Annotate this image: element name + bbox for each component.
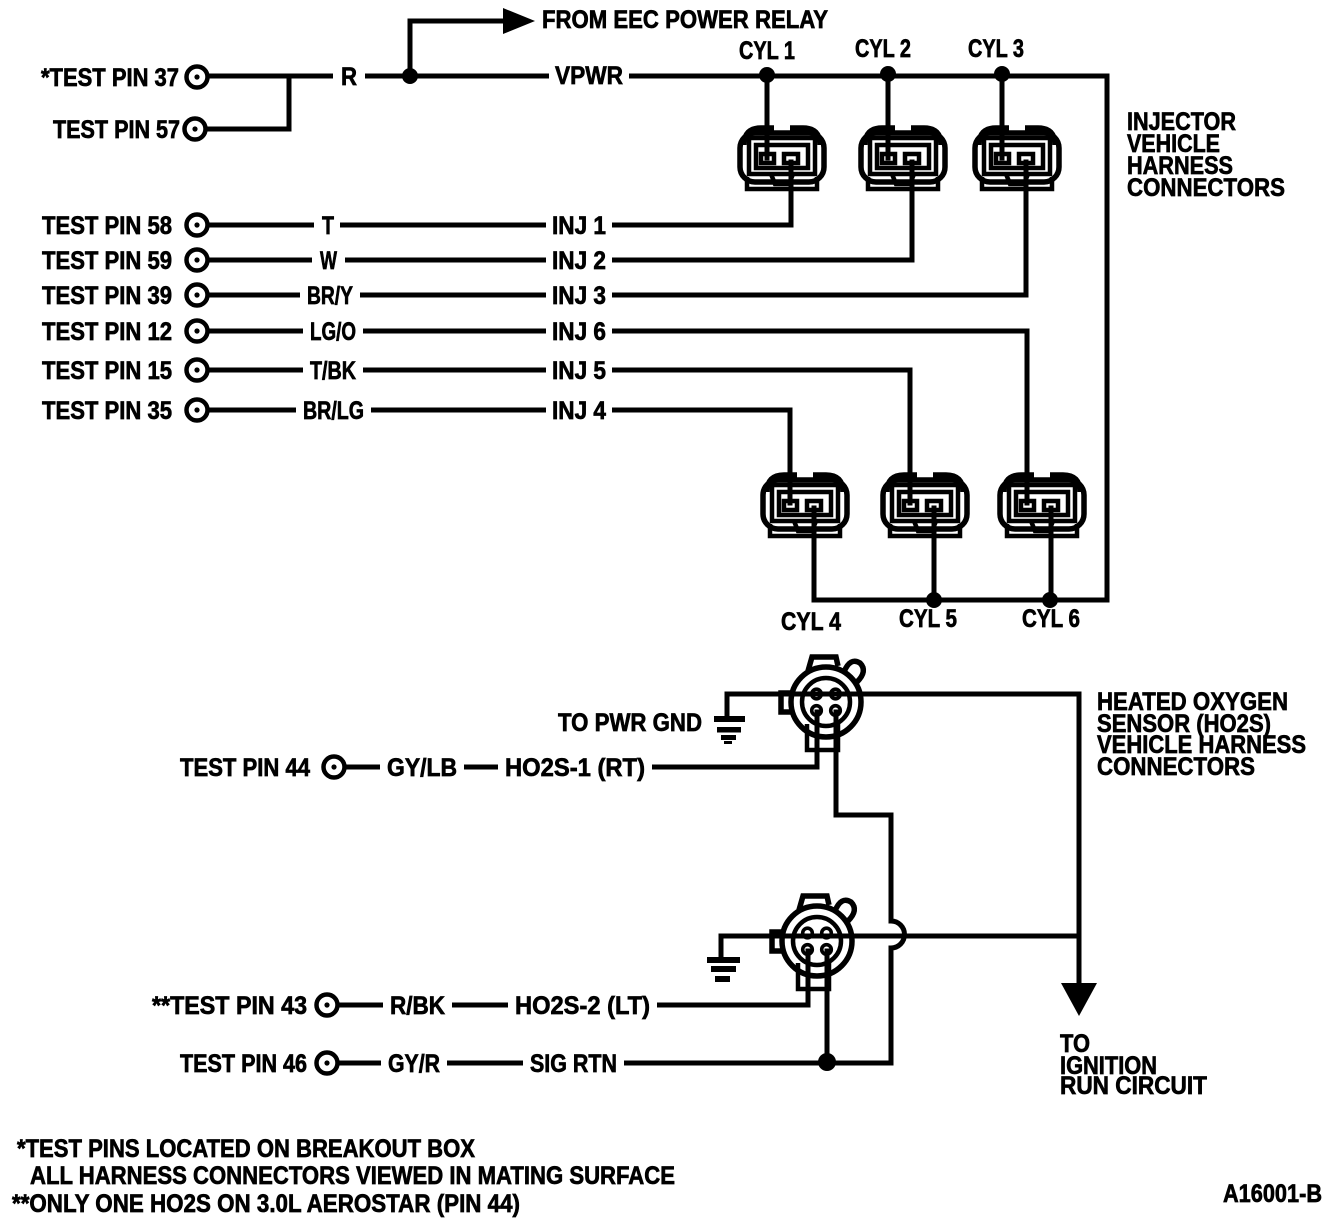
junction dot CYL2 [880, 66, 896, 82]
svg-text:CYL 5: CYL 5 [899, 605, 957, 633]
wire CYL3 drop to connector [1000, 75, 1005, 158]
svg-text:TEST PIN 35: TEST PIN 35 [42, 397, 172, 425]
svg-text:TEST PIN 12: TEST PIN 12 [42, 318, 172, 346]
svg-text:LG/O: LG/O [310, 318, 356, 346]
svg-text:TEST PIN 46: TEST PIN 46 [180, 1050, 307, 1078]
test pin 44 circle [324, 757, 345, 778]
wire INJ 2 row [208, 162, 912, 260]
test pin 37 circle [187, 67, 208, 88]
test pin 15 circle [187, 360, 208, 381]
svg-text:INJ 4: INJ 4 [552, 397, 606, 425]
wire PWR GND to sensor1 and down to arrow [727, 694, 1079, 983]
svg-text:INJ 5: INJ 5 [552, 357, 606, 385]
svg-text:*TEST PINS LOCATED ON BREAKOUT: *TEST PINS LOCATED ON BREAKOUT BOX [17, 1135, 475, 1163]
wire CYL5 pin riser [932, 508, 937, 600]
svg-text:R: R [341, 63, 357, 91]
label INJECTOR VEHICLE HARNESS CONNECTORS [1127, 108, 1285, 202]
test pin 46 circle [317, 1053, 338, 1074]
wire CYL1 drop to connector [765, 75, 770, 158]
svg-text:A16001-B: A16001-B [1223, 1180, 1322, 1208]
injector connector CYL2 [861, 128, 945, 189]
svg-text:INJ 2: INJ 2 [552, 247, 606, 275]
svg-text:INJ 1: INJ 1 [552, 212, 606, 240]
junction dot CYL1 [759, 67, 775, 83]
junction dot CYL5 bus [926, 592, 942, 608]
svg-text:INJ 6: INJ 6 [552, 318, 606, 346]
svg-text:BR/LG: BR/LG [303, 397, 364, 425]
svg-text:**TEST PIN 43: **TEST PIN 43 [152, 992, 307, 1020]
wire INJ 5 row [208, 370, 910, 503]
svg-text:*TEST PIN 37: *TEST PIN 37 [41, 64, 179, 92]
svg-text:R/BK: R/BK [390, 992, 445, 1020]
wire INJ 4 row [208, 410, 790, 503]
injector connector CYL5 [883, 475, 967, 536]
wire sensor1 to SIG RTN vertical with hop [836, 712, 905, 1063]
test pin 59 circle [187, 250, 208, 271]
label HEATED OXYGEN SENSOR (HO2S) VEHICLE HARNESS CONNECTORS [1097, 688, 1306, 781]
svg-text:TEST PIN 39: TEST PIN 39 [42, 282, 172, 310]
junction dot SIG RTN [818, 1053, 836, 1071]
svg-text:**ONLY ONE HO2S ON 3.0L AEROST: **ONLY ONE HO2S ON 3.0L AEROSTAR (PIN 44… [12, 1190, 520, 1218]
test pin 39 circle [187, 285, 208, 306]
svg-text:FROM EEC POWER RELAY: FROM EEC POWER RELAY [542, 6, 828, 34]
wire sensor2 pin to SIG RTN [825, 951, 830, 1063]
svg-text:HO2S-1 (RT): HO2S-1 (RT) [505, 754, 645, 782]
wire CYL456 bus bottom [814, 598, 1107, 603]
svg-text:GY/R: GY/R [388, 1050, 440, 1078]
test pin 57 circle [185, 119, 206, 140]
wire CYL6 pin riser [1049, 508, 1054, 600]
wire CYL2 drop to connector [886, 75, 891, 158]
injector connector CYL6 [1000, 475, 1084, 536]
svg-text:VPWR: VPWR [555, 62, 623, 90]
wire INJ 3 row [208, 162, 1026, 295]
wire branch to EEC arrow [410, 21, 503, 77]
svg-text:T: T [322, 212, 334, 240]
wire HO2S-2 row [338, 951, 808, 1005]
svg-text:BR/Y: BR/Y [307, 282, 353, 310]
svg-text:CYL 3: CYL 3 [968, 35, 1024, 63]
wire INJ 6 row [208, 331, 1027, 503]
svg-text:CYL 1: CYL 1 [739, 37, 795, 65]
svg-text:TO PWR GND: TO PWR GND [558, 709, 702, 737]
svg-text:ALL HARNESS CONNECTORS VIEWED: ALL HARNESS CONNECTORS VIEWED IN MATING … [30, 1162, 675, 1190]
svg-text:TEST PIN 57: TEST PIN 57 [53, 116, 180, 144]
wire CYL4 pin riser [812, 508, 817, 600]
svg-text:INJ 3: INJ 3 [552, 282, 606, 310]
injector connector CYL4 [763, 475, 847, 536]
HO2S connector 2 [772, 896, 854, 989]
wire right vertical VPWR to CYL bus [1105, 76, 1110, 600]
svg-text:CONNECTORS: CONNECTORS [1097, 753, 1255, 781]
ground symbol 1 PWR GND [714, 716, 745, 744]
svg-text:T/BK: T/BK [310, 357, 356, 385]
wire SIG RTN row [338, 1061, 891, 1066]
test pin 35 circle [187, 400, 208, 421]
junction dot R node [402, 68, 418, 84]
svg-text:TEST PIN 15: TEST PIN 15 [42, 357, 172, 385]
wire HO2S-1 row [345, 712, 817, 767]
injector connector CYL3 [975, 128, 1059, 189]
HO2S connector 1 [781, 657, 863, 750]
junction dot CYL6 bus [1042, 592, 1058, 608]
svg-text:W: W [320, 247, 337, 275]
junction dot CYL3 [994, 66, 1010, 82]
svg-text:CONNECTORS: CONNECTORS [1127, 174, 1285, 202]
wire INJ 1 row [208, 162, 791, 225]
ground symbol 2 [707, 957, 740, 982]
svg-text:HO2S-2 (LT): HO2S-2 (LT) [515, 992, 650, 1020]
svg-text:TEST PIN 59: TEST PIN 59 [42, 247, 172, 275]
wire ground2 to sensor2 line [721, 936, 1079, 959]
svg-text:TEST PIN 58: TEST PIN 58 [42, 212, 172, 240]
arrowhead FROM EEC POWER RELAY [503, 8, 535, 34]
label TO IGNITION RUN CIRCUIT [1060, 1030, 1207, 1100]
svg-text:CYL 2: CYL 2 [855, 35, 911, 63]
test pin 58 circle [187, 215, 208, 236]
svg-text:TEST PIN 44: TEST PIN 44 [180, 754, 310, 782]
svg-text:GY/LB: GY/LB [387, 754, 457, 782]
svg-text:CYL 4: CYL 4 [781, 608, 841, 636]
wire test pin 57 branch [206, 78, 289, 129]
test pin 12 circle [187, 321, 208, 342]
injector connector CYL1 [740, 128, 824, 189]
test pin 43 circle [317, 995, 338, 1016]
wire VPWR bus top [208, 74, 1107, 79]
svg-text:CYL 6: CYL 6 [1022, 605, 1080, 633]
arrowhead TO IGNITION RUN CIRCUIT [1061, 983, 1097, 1016]
svg-text:RUN CIRCUIT: RUN CIRCUIT [1060, 1072, 1207, 1100]
svg-text:SIG RTN: SIG RTN [530, 1050, 617, 1078]
